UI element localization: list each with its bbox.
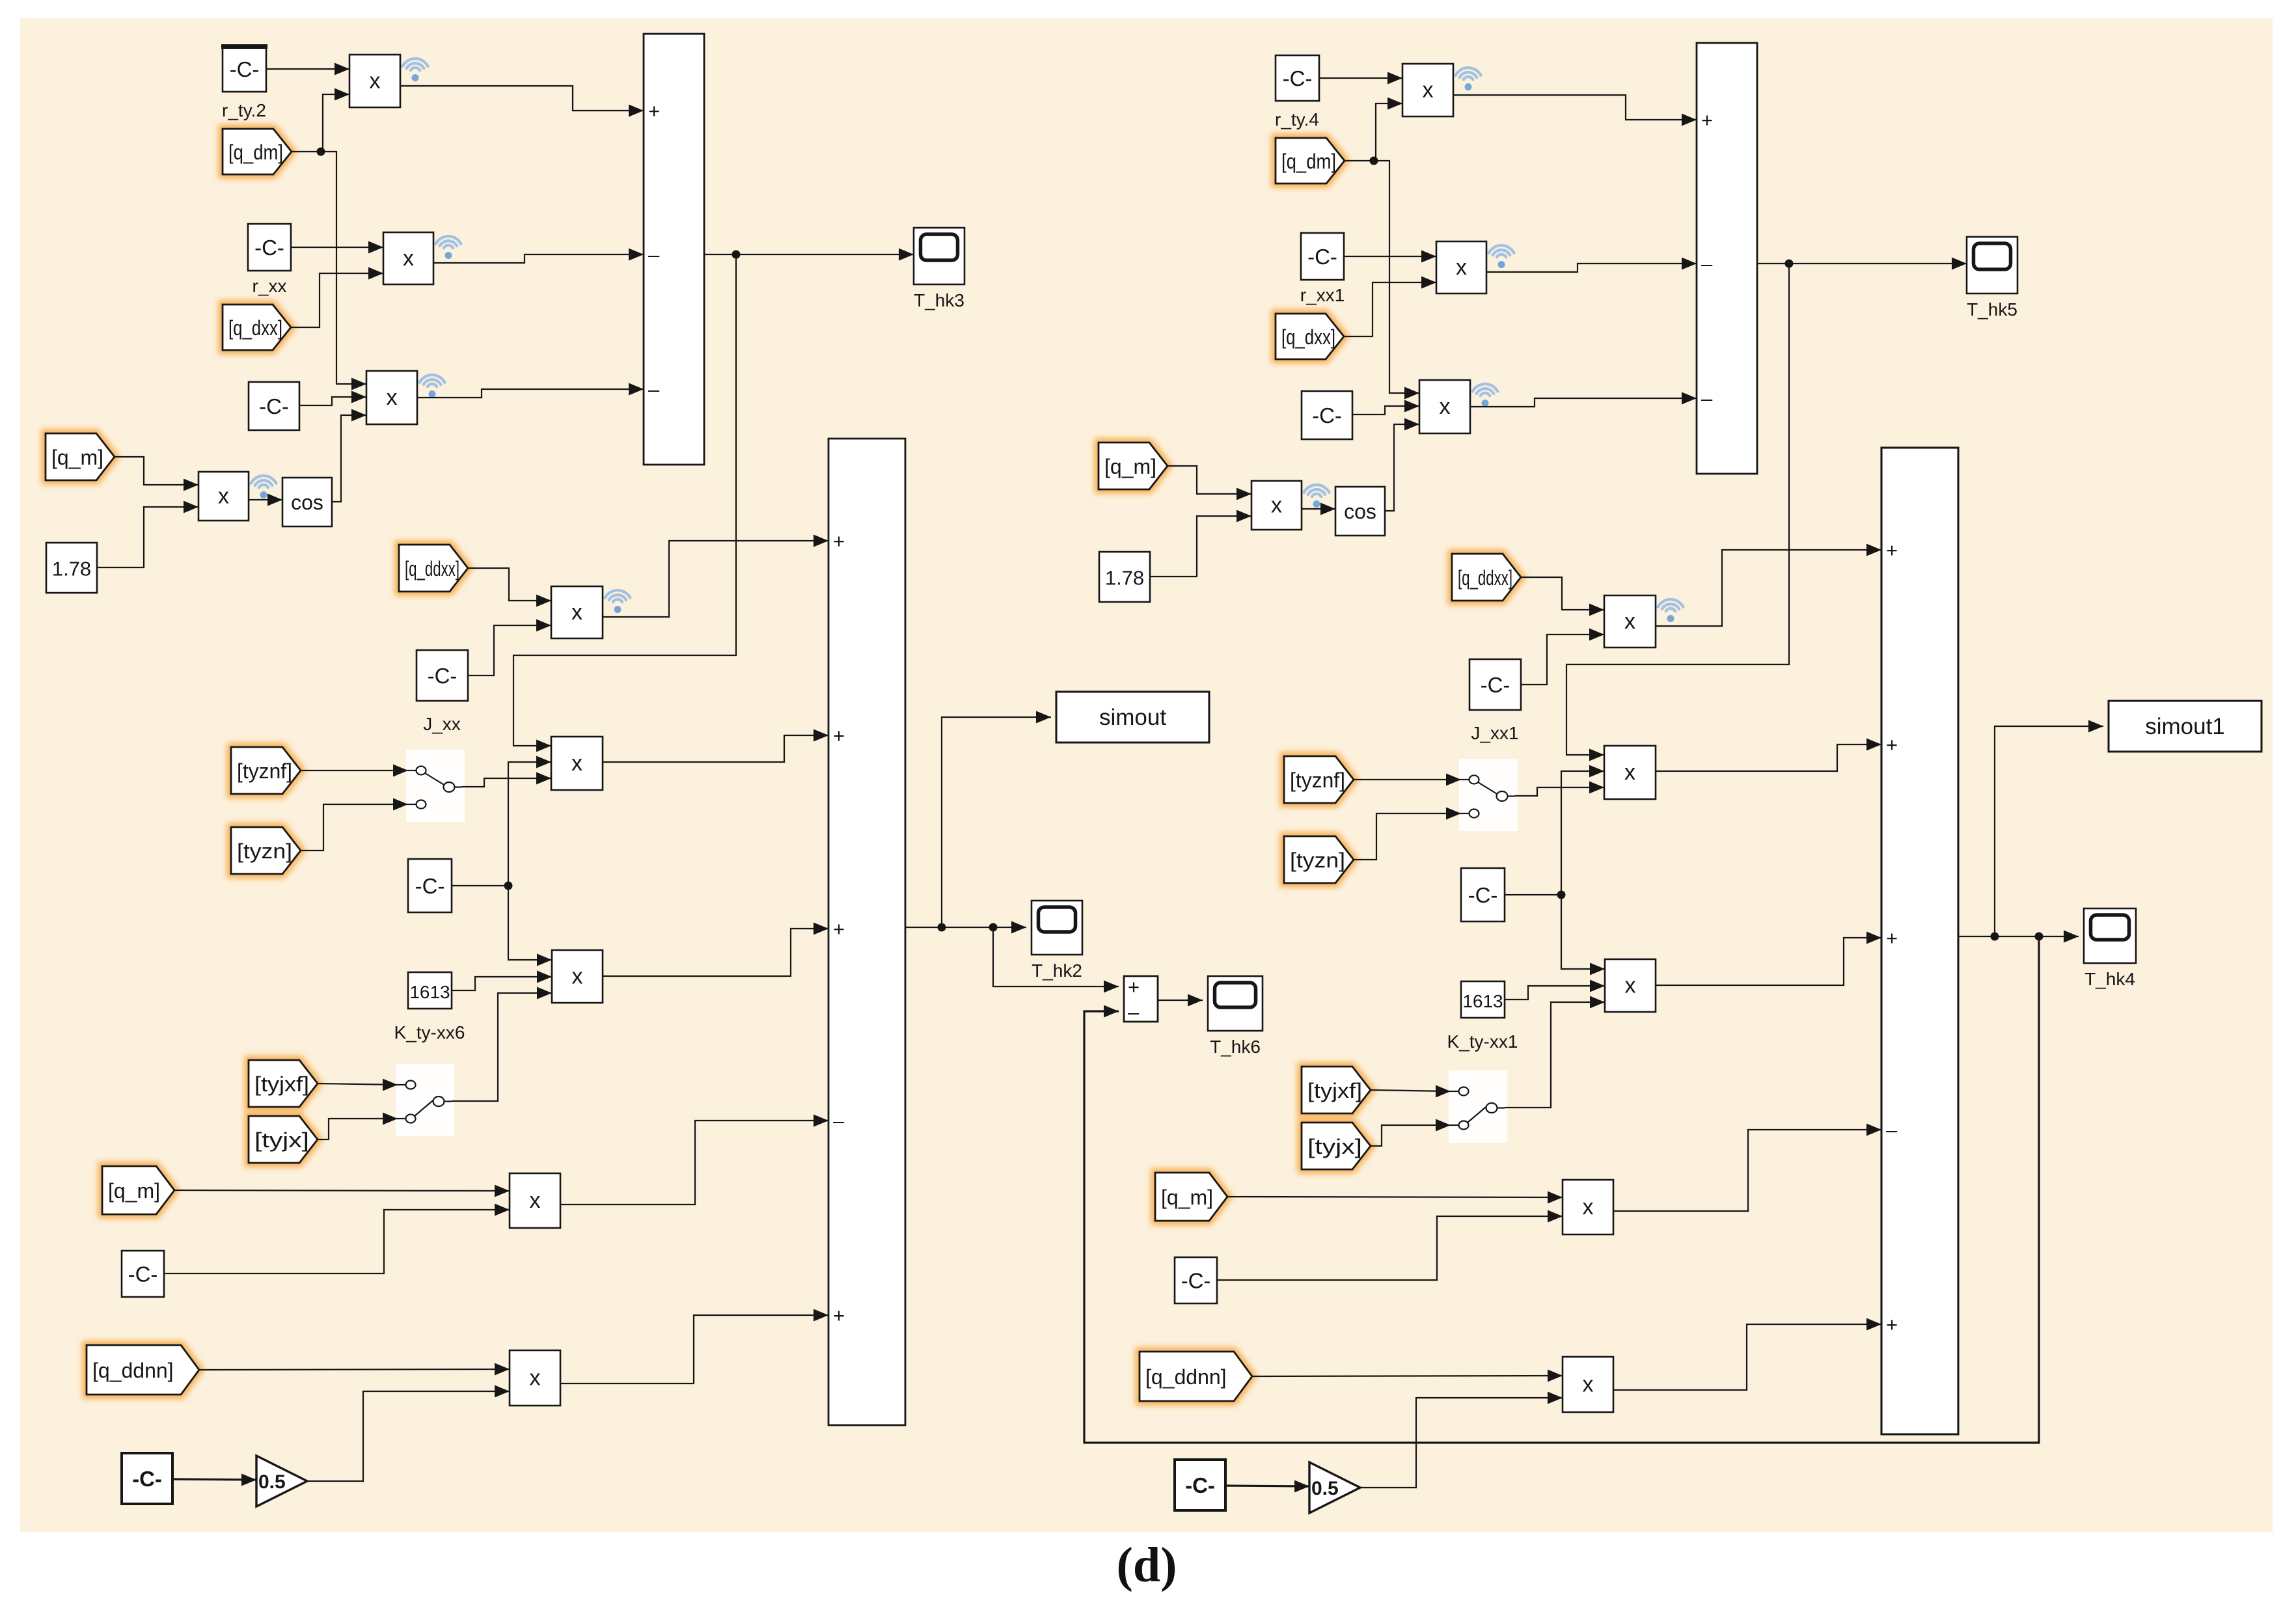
wire C4-X6.1 xyxy=(508,886,552,966)
svg-text:T_hk6: T_hk6 xyxy=(1210,1037,1261,1057)
svg-text:[q_dm]: [q_dm] xyxy=(1281,150,1336,173)
from/goto tag [tyjx] xyxy=(249,1116,318,1163)
svg-text:simout1: simout1 xyxy=(2145,714,2225,739)
constant block C6r xyxy=(1175,1460,1225,1510)
svg-text:–: – xyxy=(1886,1119,1898,1141)
junction SUM2r out b xyxy=(2035,933,2043,941)
wire X5a-SUM2.1 xyxy=(603,535,828,618)
svg-text:[q_ddnn]: [q_ddnn] xyxy=(92,1359,174,1382)
sum block SUM1 xyxy=(644,34,704,465)
wire dotb-Thk2 xyxy=(993,921,1026,934)
svg-text:+: + xyxy=(1886,539,1898,562)
junction SUM2 out a xyxy=(938,923,946,932)
from/goto tag [tyznf]r xyxy=(1284,756,1354,803)
svg-text:T_hk5: T_hk5 xyxy=(1967,299,2017,320)
wire cos-X3.3 xyxy=(332,409,366,502)
product block X1r xyxy=(1402,64,1481,116)
svg-text:1613: 1613 xyxy=(1462,991,1503,1011)
from/goto tag [q_ddnn]r xyxy=(1140,1352,1252,1401)
wire tyzn-SW1.2r xyxy=(1354,808,1461,860)
wire C3-X3.2 xyxy=(299,391,366,406)
wire qdm-X3.1r xyxy=(1374,161,1419,400)
wire qdm-X3.1 xyxy=(321,152,366,390)
wire C1-X1r xyxy=(1319,72,1402,85)
sum block SUM1r xyxy=(1697,43,1757,474)
product block X5ar xyxy=(1604,595,1683,647)
wire C4-X5b.2r xyxy=(1561,765,1604,895)
wire C6-GAIN xyxy=(172,1474,256,1486)
svg-text:+: + xyxy=(833,918,845,940)
wire tyzn-SW1.2 xyxy=(301,798,408,851)
svg-text:-C-: -C- xyxy=(1468,883,1498,907)
svg-text:-C-: -C- xyxy=(428,664,458,688)
constant block C3r xyxy=(1302,391,1352,439)
svg-text:-C-: -C- xyxy=(415,874,445,898)
from/goto tag [tyjxf] xyxy=(249,1060,318,1107)
wire qm-X7.1 xyxy=(174,1185,510,1197)
wire dotra-dotrb xyxy=(1995,936,2038,937)
wire X1-SUM1.1 xyxy=(400,86,644,117)
svg-text:K_ty-xx6: K_ty-xx6 xyxy=(394,1022,465,1042)
svg-text:+: + xyxy=(833,724,845,747)
svg-text:r_ty.2: r_ty.2 xyxy=(222,100,266,120)
constant block C4r xyxy=(1461,868,1505,921)
junction SUM1 out xyxy=(732,251,741,259)
from/goto tag [tyjxf]r xyxy=(1302,1067,1371,1113)
wire GAIN-X8.2r xyxy=(1360,1392,1563,1488)
constant block C3 xyxy=(249,382,299,430)
svg-text:[q_dxx]: [q_dxx] xyxy=(1281,325,1335,349)
wire SUM2-dots xyxy=(905,927,941,928)
svg-text:+: + xyxy=(1886,927,1898,949)
svg-text:(d): (d) xyxy=(1117,1538,1177,1592)
constant block C6 xyxy=(122,1453,172,1504)
wire C2-X2.1 xyxy=(291,241,383,254)
wire X2-SUM1.2 xyxy=(433,249,644,264)
gain block GAIN xyxy=(256,1456,307,1506)
manual switch SW2r xyxy=(1449,1070,1507,1143)
from/goto tag [tyzn]r xyxy=(1284,836,1354,883)
gain block GAINr xyxy=(1309,1462,1360,1513)
scope block scope T_hk6 xyxy=(1208,976,1263,1031)
wire qm-X4.1 xyxy=(115,457,198,491)
svg-text:x: x xyxy=(571,751,582,776)
svg-text:-C-: -C- xyxy=(128,1262,158,1287)
constant block CJxxr xyxy=(1469,659,1521,710)
sum block SUM2r xyxy=(1881,448,1958,1434)
svg-text:–: – xyxy=(1128,1001,1140,1024)
svg-text:[q_m]: [q_m] xyxy=(1161,1186,1213,1209)
wire 178-X4.2 xyxy=(97,501,198,568)
svg-text:cos: cos xyxy=(1344,500,1376,523)
wire C1-X1 xyxy=(266,63,349,75)
wire tyjx-SW2.2 xyxy=(318,1113,398,1140)
wire 178-X4.2r xyxy=(1150,510,1251,577)
svg-text:x: x xyxy=(1583,1195,1594,1220)
product block X5br xyxy=(1604,746,1656,799)
svg-text:+: + xyxy=(1886,733,1898,756)
wire qm-X7.1r xyxy=(1227,1192,1563,1204)
svg-text:x: x xyxy=(403,246,414,271)
svg-text:–: – xyxy=(1701,252,1713,275)
constant block C2 xyxy=(248,224,291,271)
from/goto tag [q_ddnn] xyxy=(87,1345,199,1395)
wire X8-SUM2.5r xyxy=(1613,1318,1881,1391)
svg-text:+: + xyxy=(1886,1313,1898,1336)
svg-text:–: – xyxy=(1701,387,1713,410)
sum block SUMS (T_hk6 comparator) xyxy=(1124,975,1158,1024)
wire qddxx-X5a.1r xyxy=(1521,577,1604,616)
wire qdxx-X2.2r xyxy=(1344,277,1436,337)
svg-text:[tyzn]: [tyzn] xyxy=(237,839,292,863)
wire 1613-X6.2 xyxy=(452,971,552,991)
svg-text:x: x xyxy=(530,1366,541,1391)
wire qddnn-X8.1 xyxy=(199,1363,510,1376)
wire SW1-X5b.3r xyxy=(1515,782,1604,797)
svg-text:x: x xyxy=(218,484,229,509)
wire SW2-X6.3 xyxy=(452,987,552,1102)
constant block C5 xyxy=(122,1251,164,1297)
svg-text:–: – xyxy=(648,243,660,266)
svg-text:[q_dxx]: [q_dxx] xyxy=(228,316,282,340)
wire C5-X7.2 xyxy=(164,1204,510,1274)
constant block 1613r xyxy=(1461,981,1505,1018)
wire X7-SUM2.4r xyxy=(1613,1124,1881,1212)
wire X8-SUM2.5 xyxy=(560,1309,828,1384)
wire qdm-X1.2r xyxy=(1374,98,1402,161)
wire X6-SUM2.3 xyxy=(603,923,828,977)
svg-text:[q_m]: [q_m] xyxy=(51,446,103,469)
product block X2 xyxy=(383,232,461,284)
wire feedback xyxy=(1084,936,2039,1443)
svg-text:[tyjx]: [tyjx] xyxy=(254,1128,309,1152)
wire SUMS-Thk6 xyxy=(1158,994,1203,1007)
from/goto tag [q_ddxx]r xyxy=(1452,554,1521,601)
svg-text:simout: simout xyxy=(1099,705,1166,730)
wire qddxx-X5a.1 xyxy=(468,568,551,607)
svg-text:cos: cos xyxy=(291,491,323,514)
svg-text:T_hk2: T_hk2 xyxy=(1032,961,1082,981)
product block X6r xyxy=(1605,959,1656,1012)
wire dotb-SUMS.plus xyxy=(993,927,1119,993)
wire qm-X4.1r xyxy=(1168,466,1251,500)
svg-text:x: x xyxy=(1271,493,1282,518)
wire qdxx-X2.2 xyxy=(291,267,383,328)
svg-text:[q_m]: [q_m] xyxy=(1104,455,1156,478)
from/goto tag [tyznf] xyxy=(231,747,301,794)
from/goto tag [q_dm]r xyxy=(1276,138,1345,184)
product block X1 xyxy=(349,55,428,107)
svg-text:-C-: -C- xyxy=(132,1467,162,1491)
svg-text:1.78: 1.78 xyxy=(52,558,91,580)
svg-text:[q_ddnn]: [q_ddnn] xyxy=(1145,1365,1227,1389)
wire dota-dotb xyxy=(942,927,992,928)
wire X2-SUM1.2r xyxy=(1486,258,1697,273)
svg-text:+: + xyxy=(833,530,845,552)
product block X8r xyxy=(1563,1357,1613,1412)
math function block cosr xyxy=(1335,487,1385,536)
wire X3-SUM1.3r xyxy=(1470,392,1697,407)
wire dotra-simout1 xyxy=(1995,720,2103,937)
wire tyjxf-SW2.1 xyxy=(318,1079,398,1091)
wire GAIN-X8.2 xyxy=(307,1385,510,1482)
from/goto tag [q_m] lower xyxy=(102,1166,174,1214)
wire CJxx-X5a.2r xyxy=(1521,629,1604,685)
constant block C2r xyxy=(1301,233,1344,280)
product block X3r xyxy=(1419,380,1497,433)
product block X4r xyxy=(1251,481,1302,530)
svg-text:x: x xyxy=(1583,1372,1594,1397)
constant block 1.78r xyxy=(1099,552,1150,602)
junction C4 out xyxy=(504,882,513,890)
svg-text:–: – xyxy=(833,1110,845,1132)
wire C4-dot xyxy=(452,885,508,886)
wire C4-X5b.2 xyxy=(508,756,551,886)
svg-text:+: + xyxy=(833,1304,845,1327)
wire cos-X3.3r xyxy=(1385,418,1419,511)
outport block simout xyxy=(1056,692,1209,743)
svg-text:x: x xyxy=(370,69,381,94)
wire qdm-dotr xyxy=(1345,160,1373,161)
svg-text:x: x xyxy=(1624,609,1635,634)
svg-text:x: x xyxy=(1625,974,1636,998)
from/goto tag [tyjx]r xyxy=(1302,1123,1371,1169)
svg-text:T_hk4: T_hk4 xyxy=(2084,969,2135,989)
wire C2-X2.1r xyxy=(1344,251,1436,263)
svg-text:[q_ddxx]: [q_ddxx] xyxy=(405,557,459,580)
manual switch SW2 xyxy=(396,1064,454,1136)
svg-text:[tyzn]: [tyzn] xyxy=(1290,849,1345,872)
svg-text:[tyznf]: [tyznf] xyxy=(237,759,292,783)
wire SUM1-dotr xyxy=(1757,263,1789,264)
from/goto tag [q_dm] xyxy=(223,129,292,174)
svg-text:x: x xyxy=(1624,760,1635,785)
wire SUM2r-dots xyxy=(1958,936,1994,937)
svg-text:[tyjx]: [tyjx] xyxy=(1307,1135,1362,1158)
scope block scope T_hk2 xyxy=(1032,901,1082,955)
junction SUM1 outr xyxy=(1785,260,1794,268)
wire tyjx-SW2.2r xyxy=(1371,1119,1451,1147)
svg-text:K_ty-xx1: K_ty-xx1 xyxy=(1447,1031,1518,1052)
junction qdmr xyxy=(1370,157,1378,165)
constant block C4 xyxy=(408,859,452,912)
svg-text:+: + xyxy=(648,100,660,122)
svg-text:-C-: -C- xyxy=(254,236,284,260)
wire X5a-SUM2.1r xyxy=(1656,544,1881,627)
wire X1-SUM1.1r xyxy=(1453,95,1697,126)
junction SUM2r out a xyxy=(1991,933,1999,941)
wire X7-SUM2.4 xyxy=(560,1115,828,1205)
junction SUM2 out b xyxy=(989,923,998,932)
svg-text:J_xx1: J_xx1 xyxy=(1471,723,1518,743)
product block X5b xyxy=(551,737,603,790)
svg-text:+: + xyxy=(1701,109,1713,131)
wire C3-X3.2r xyxy=(1352,400,1419,415)
product block X7 xyxy=(510,1173,560,1228)
wire C6-GAINr xyxy=(1225,1480,1309,1493)
svg-text:0.5: 0.5 xyxy=(258,1471,286,1493)
product block X3 xyxy=(366,371,444,424)
from/goto tag [q_m] upperr xyxy=(1099,443,1168,489)
wire tyjxf-SW2.1r xyxy=(1371,1085,1451,1098)
svg-text:x: x xyxy=(387,385,398,410)
from/goto tag [tyzn] xyxy=(231,827,301,874)
wire X5b-SUM2.2r xyxy=(1656,739,1881,772)
constant block C5r xyxy=(1175,1257,1217,1303)
svg-text:x: x xyxy=(572,964,583,989)
svg-text:-C-: -C- xyxy=(259,394,289,418)
wire SUM1-scoper xyxy=(1789,258,1967,270)
constant block 1.78 xyxy=(46,543,97,593)
svg-text:-C-: -C- xyxy=(1185,1473,1215,1497)
wire qddnn-X8.1r xyxy=(1252,1370,1563,1382)
wire tyznf-SW1.1r xyxy=(1354,774,1461,786)
manual switch SW1 xyxy=(406,750,465,822)
constant block C1 xyxy=(221,46,267,92)
wire qdm-X1.2 xyxy=(321,89,349,152)
svg-text:x: x xyxy=(1423,78,1434,103)
svg-text:[q_ddxx]: [q_ddxx] xyxy=(1458,566,1512,590)
scope block scope T_hk4 xyxy=(2084,908,2136,963)
scope block scope T_hk5 xyxy=(1967,237,2017,293)
product block X4 xyxy=(198,472,249,521)
product block X5a xyxy=(551,586,630,638)
wire X5b-SUM2.2 xyxy=(603,729,828,763)
svg-text:-C-: -C- xyxy=(1307,245,1337,269)
svg-text:-C-: -C- xyxy=(1181,1269,1211,1293)
svg-text:-C-: -C- xyxy=(1283,66,1313,90)
svg-text:-C-: -C- xyxy=(1481,673,1510,697)
svg-text:[tyjxf]: [tyjxf] xyxy=(254,1072,309,1096)
wire qdm-dot xyxy=(292,151,320,152)
svg-text:1.78: 1.78 xyxy=(1105,567,1144,590)
svg-text:x: x xyxy=(530,1188,541,1213)
product block X6 xyxy=(552,950,603,1003)
wire C4-dotr xyxy=(1505,894,1561,895)
product block X7r xyxy=(1563,1180,1613,1234)
wire tyznf-SW1.1 xyxy=(301,765,408,777)
svg-text:J_xx: J_xx xyxy=(423,714,461,734)
constant block C1r xyxy=(1276,55,1319,101)
wire CJxx-X5a.2 xyxy=(468,620,551,676)
wire SUM1-dot xyxy=(704,254,736,255)
svg-text:-C-: -C- xyxy=(1312,403,1342,428)
wire dotrb-Thk4 xyxy=(2039,931,2079,943)
svg-text:+: + xyxy=(1128,975,1140,998)
wire SUM1-X5b.1r xyxy=(1566,264,1789,761)
svg-text:-C-: -C- xyxy=(230,57,260,81)
constant block CJxx xyxy=(417,650,468,701)
wire C4-X6.1r xyxy=(1561,895,1605,975)
wire SUM1-X5b.1 xyxy=(513,254,736,752)
from/goto tag [q_ddxx] xyxy=(399,545,468,592)
svg-text:[q_m]: [q_m] xyxy=(108,1179,160,1203)
manual switch SW1r xyxy=(1459,759,1518,831)
outport block simout1 xyxy=(2109,701,2262,752)
from/goto tag [q_m] lowerr xyxy=(1155,1173,1227,1221)
junction C4 outr xyxy=(1557,891,1566,899)
svg-text:[q_dm]: [q_dm] xyxy=(228,141,283,164)
svg-text:T_hk3: T_hk3 xyxy=(914,290,964,310)
math function block cos xyxy=(282,478,332,526)
svg-text:r_xx1: r_xx1 xyxy=(1300,285,1345,305)
wire X4-cosr xyxy=(1302,503,1335,515)
svg-text:x: x xyxy=(571,600,582,625)
svg-text:x: x xyxy=(1456,255,1467,280)
wire SW2-X6.3r xyxy=(1505,996,1605,1108)
svg-text:–: – xyxy=(648,378,660,401)
wire C5-X7.2r xyxy=(1217,1210,1563,1281)
wire 1613-X6.2r xyxy=(1505,980,1605,1000)
product block X2r xyxy=(1436,241,1514,293)
svg-text:[tyznf]: [tyznf] xyxy=(1290,769,1345,792)
from/goto tag [q_dxx]r xyxy=(1276,314,1344,359)
scope block scope T_hk3 xyxy=(914,228,964,284)
svg-text:0.5: 0.5 xyxy=(1311,1478,1339,1499)
svg-text:x: x xyxy=(1440,394,1451,419)
svg-text:1613: 1613 xyxy=(409,982,450,1002)
product block X8 xyxy=(510,1350,560,1406)
junction qdm xyxy=(317,148,325,156)
wire X3-SUM1.3 xyxy=(417,383,644,398)
wire SUM1-scope xyxy=(736,249,914,261)
sum block SUM2 xyxy=(828,439,905,1425)
constant block 1613 xyxy=(408,972,452,1009)
from/goto tag [q_m] upper xyxy=(46,433,115,480)
wire dota-simout xyxy=(942,711,1051,928)
svg-text:[tyjxf]: [tyjxf] xyxy=(1307,1079,1362,1102)
wire X6-SUM2.3r xyxy=(1656,932,1881,986)
wire SW1-X5b.3 xyxy=(462,772,551,787)
wire X4-cos xyxy=(249,494,282,506)
svg-text:r_ty.4: r_ty.4 xyxy=(1275,109,1319,129)
from/goto tag [q_dxx] xyxy=(223,305,291,350)
svg-text:r_xx: r_xx xyxy=(253,276,287,296)
